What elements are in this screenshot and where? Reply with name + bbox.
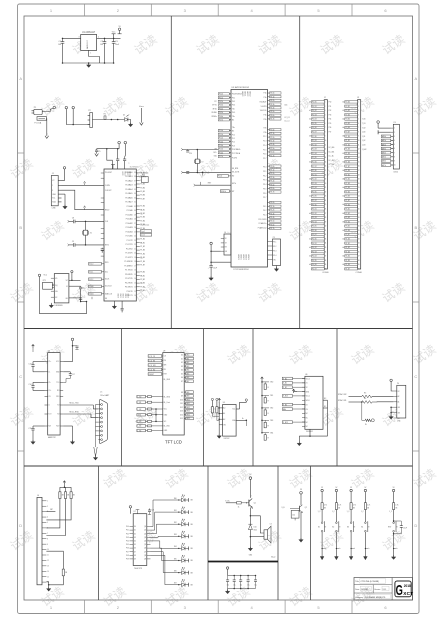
svg-text:P1.0b: P1.0b <box>219 130 223 132</box>
svg-text:P03: P03 <box>126 537 129 539</box>
svg-text:P0_B2: P0_B2 <box>345 110 350 112</box>
svg-text:P0_B6: P0_B6 <box>140 195 145 197</box>
svg-text:b0: b0 <box>309 102 311 104</box>
section divider vertical x=171 <box>170 16 172 329</box>
svg-text:BB: BB <box>191 572 193 574</box>
svg-text:Q3: Q3 <box>144 537 146 539</box>
svg-text:D10: D10 <box>254 527 257 529</box>
svg-text:17: 17 <box>325 170 327 172</box>
svg-text:P0.1: P0.1 <box>232 97 235 99</box>
capacitor C2 <box>104 38 106 41</box>
svg-text:b4: b4 <box>342 204 344 206</box>
svg-text:LCD_CS: LCD_CS <box>149 356 155 358</box>
svg-text:P6.5b: P6.5b <box>270 111 274 113</box>
svg-text:GN: GN <box>398 412 400 414</box>
transistor Q1 <box>248 500 250 507</box>
svg-text:P06: P06 <box>126 548 129 550</box>
power bar flag LED5 <box>188 547 190 551</box>
power flag J1 pin1 <box>63 167 65 169</box>
capacitor C6a <box>117 149 119 159</box>
wire crystal rail B <box>183 171 231 173</box>
svg-text:WT: WT <box>232 191 235 193</box>
resistor R10 <box>70 487 72 492</box>
svg-text:P0_B6: P0_B6 <box>345 127 350 129</box>
svg-text:P6.1b: P6.1b <box>270 96 274 98</box>
svg-text:P2.2: P2.2 <box>263 136 266 138</box>
net label box RD <box>217 175 228 178</box>
svg-text:D2: D2 <box>181 362 183 364</box>
svg-text:G: G <box>396 582 403 599</box>
svg-text:P0_B3: P0_B3 <box>345 114 350 116</box>
resistor R12 <box>237 502 242 504</box>
svg-text:P4_B2: P4_B2 <box>312 247 317 249</box>
svg-text:b8: b8 <box>342 221 344 223</box>
svg-text:P3.6: P3.6 <box>263 193 266 195</box>
ground DB9 <box>94 447 96 457</box>
svg-text:10u: 10u <box>227 585 230 587</box>
svg-text:11: 11 <box>325 144 327 146</box>
IC LCD1 TFT module body <box>163 353 184 435</box>
svg-text:29: 29 <box>358 221 360 223</box>
svg-text:31: 31 <box>358 230 360 232</box>
svg-text:L_B3: L_B3 <box>137 421 141 423</box>
svg-text:P2.4b: P2.4b <box>270 144 274 146</box>
svg-text:9Pin UART: 9Pin UART <box>100 394 110 397</box>
svg-text:P08: P08 <box>126 555 129 557</box>
svg-text:C9: C9 <box>72 241 74 243</box>
svg-text:P00: P00 <box>126 526 129 528</box>
U2 left pin labels inside <box>105 172 113 300</box>
power flag cap bank <box>226 567 228 569</box>
svg-text:P0_B0: P0_B0 <box>312 102 317 104</box>
svg-text:P3_B0: P3_B0 <box>140 272 145 274</box>
svg-text:P2_B4: P2_B4 <box>140 220 145 222</box>
svg-text:T_B0: T_B0 <box>362 119 366 121</box>
svg-text:P4_B1: P4_B1 <box>345 243 350 245</box>
svg-text:14: 14 <box>134 278 136 280</box>
capacitor C14 <box>33 381 45 383</box>
middle band divider x=203.5 <box>203 329 205 467</box>
svg-text:P2_B5: P2_B5 <box>312 191 317 193</box>
wire crystal rail A <box>183 149 219 151</box>
svg-text:10: 10 <box>325 140 327 142</box>
svg-text:P3_B5: P3_B5 <box>345 226 350 228</box>
power bar flag LED6 <box>188 559 190 563</box>
svg-text:P0_B3: P0_B3 <box>140 184 145 186</box>
capacitor C29 box <box>291 510 299 518</box>
svg-text:P0_B3: P0_B3 <box>312 114 317 116</box>
svg-text:P1_B6: P1_B6 <box>345 161 350 163</box>
svg-text:P2.6/A14: P2.6/A14 <box>126 230 133 233</box>
svg-text:34: 34 <box>134 193 136 195</box>
bottom band divider x=98.5 <box>98 466 100 600</box>
svg-text:30: 30 <box>325 226 327 228</box>
wire U7 Q7 to LED8 <box>151 555 182 584</box>
resistor R8 <box>59 487 61 492</box>
ground fuse return <box>45 136 49 139</box>
svg-text:DB9: DB9 <box>186 396 189 398</box>
svg-text:38: 38 <box>358 260 360 262</box>
svg-text:b8: b8 <box>309 264 311 266</box>
svg-text:P2.5: P2.5 <box>263 149 266 151</box>
resistor network RN1 <box>141 177 148 183</box>
svg-text:VCC1: VCC1 <box>123 172 125 176</box>
resistor R1 on rail <box>104 116 106 119</box>
svg-text:P2_B6: P2_B6 <box>312 196 317 198</box>
svg-text:P2_B0: P2_B0 <box>345 170 350 172</box>
svg-text:S1: S1 <box>318 527 320 529</box>
wire fuse to ground <box>46 117 48 119</box>
svg-text:J6: J6 <box>37 495 39 497</box>
svg-text:P4_B3: P4_B3 <box>345 251 350 253</box>
svg-text:37: 37 <box>134 180 136 182</box>
power flag S4 <box>364 489 366 491</box>
power flag VCC U4 right <box>71 338 74 341</box>
svg-text:GND0: GND0 <box>117 294 119 298</box>
connector J1 6-pin header <box>51 176 58 206</box>
wire input rail <box>66 124 90 126</box>
svg-text:VCC2: VCC2 <box>306 378 310 380</box>
power bar flag LED2 <box>188 510 190 514</box>
svg-text:V_BC3: V_BC3 <box>283 396 288 398</box>
svg-text:1k: 1k <box>238 506 240 508</box>
svg-text:S4: S4 <box>361 527 363 529</box>
svg-text:P2_B4: P2_B4 <box>312 187 317 189</box>
svg-text:P1.0/T2: P1.0/T2 <box>127 240 133 242</box>
capacitor C24 bank <box>227 576 229 580</box>
U7 top pins <box>137 510 139 514</box>
svg-text:A: A <box>414 76 417 81</box>
svg-text:D5: D5 <box>181 373 183 375</box>
LED D9 <box>182 583 186 587</box>
resistor pull-up S4 <box>364 503 366 510</box>
svg-text:b4: b4 <box>309 247 311 249</box>
svg-text:P3_B5: P3_B5 <box>312 226 317 228</box>
svg-text:b2: b2 <box>309 153 311 155</box>
svg-text:b2: b2 <box>342 110 344 112</box>
svg-text:TX: TX <box>225 242 227 244</box>
capacitor C9 on reset wire <box>69 244 73 246</box>
svg-text:L_B1: L_B1 <box>137 402 141 404</box>
svg-text:P1.5/MOSI: P1.5/MOSI <box>124 261 133 263</box>
svg-text:28: 28 <box>134 219 136 221</box>
ground U4 left <box>32 440 34 442</box>
IC U8 DS18B20 body <box>54 274 69 303</box>
svg-text:b6: b6 <box>342 170 344 172</box>
switch S3 <box>350 522 352 524</box>
svg-text:P6.7b: P6.7b <box>270 119 274 121</box>
svg-text:KTAC IN2: KTAC IN2 <box>338 393 346 396</box>
svg-text:V_BC3: V_BC3 <box>283 422 288 424</box>
svg-text:104: 104 <box>58 44 61 46</box>
LCD inside pin texts <box>164 355 183 433</box>
resistor pull-up RST <box>393 503 395 510</box>
svg-text:P0.2b: P0.2b <box>219 101 223 103</box>
power flag C6 node <box>65 106 67 108</box>
svg-text:12: 12 <box>325 149 327 151</box>
svg-text:DB2: DB2 <box>186 362 189 364</box>
wire Q1 emitter down <box>251 508 253 510</box>
svg-text:P2.3: P2.3 <box>263 141 266 143</box>
connector P5 aux <box>273 239 281 266</box>
svg-text:b6: b6 <box>309 170 311 172</box>
power flag S1 <box>321 489 323 491</box>
svg-text:2: 2 <box>98 37 99 39</box>
capacitor C26 bank <box>240 575 242 577</box>
svg-text:BB: BB <box>191 524 193 526</box>
svg-text:PL1: PL1 <box>232 138 235 140</box>
wire S1 lower <box>321 532 323 556</box>
svg-text:SCL: SCL <box>105 272 108 274</box>
svg-text:38: 38 <box>134 176 136 178</box>
wire regulator ground rail <box>63 62 114 64</box>
LED D8 <box>182 571 186 575</box>
svg-text:(Cse/Cmse): (Cse/Cmse) <box>141 224 150 226</box>
svg-text:4.7k: 4.7k <box>367 505 370 507</box>
middle band divider x=253 <box>252 329 254 467</box>
svg-text:D3: D3 <box>181 366 183 368</box>
svg-text:J2: J2 <box>324 97 326 99</box>
svg-text:C10: C10 <box>82 288 85 290</box>
svg-text:P4_B6: P4_B6 <box>312 264 317 266</box>
capacitor C12 near U2 corner <box>101 248 103 249</box>
svg-text:RXD2: RXD2 <box>105 209 109 211</box>
capacitor C25 bank <box>233 575 235 577</box>
svg-text:P1.2/ECI: P1.2/ECI <box>126 248 133 250</box>
svg-text:b2: b2 <box>309 196 311 198</box>
svg-text:P0.1b: P0.1b <box>219 97 223 99</box>
ground CN6 <box>390 415 392 417</box>
svg-text:74HC573: 74HC573 <box>134 568 142 570</box>
svg-text:14: 14 <box>358 157 360 159</box>
svg-text:27: 27 <box>134 223 136 225</box>
svg-text:104: 104 <box>100 44 103 46</box>
svg-text:D11: D11 <box>180 403 183 405</box>
svg-text:PL3: PL3 <box>232 145 235 147</box>
wire J6 aux pin <box>46 511 55 513</box>
svg-text:3B: 3B <box>62 495 64 497</box>
svg-text:13: 13 <box>325 153 327 155</box>
U8 left pin stubs <box>51 277 54 279</box>
ground U5 <box>218 425 220 436</box>
svg-text:P2.1b: P2.1b <box>270 133 274 135</box>
power bar flag LED7 <box>188 571 190 575</box>
svg-text:P1_B3: P1_B3 <box>140 250 145 252</box>
svg-text:U6: U6 <box>305 374 307 376</box>
svg-text:LCD_RD: LCD_RD <box>149 369 156 371</box>
svg-text:40: 40 <box>358 268 360 270</box>
ground LED <box>130 123 132 125</box>
ground U4 right bottom <box>63 425 72 427</box>
resistor pull-up S1 <box>321 503 323 510</box>
svg-text:21: 21 <box>325 187 327 189</box>
power bar flag LED1 <box>188 498 190 502</box>
svg-text:VCC3: VCC3 <box>128 172 130 176</box>
svg-text:DS1302: DS1302 <box>306 431 313 433</box>
svg-text:P1.5b: P1.5b <box>219 149 223 151</box>
svg-text:B: B <box>414 225 417 230</box>
svg-text:Version: Version <box>374 589 380 591</box>
svg-text:PL5/Tb: PL5/Tb <box>232 157 237 159</box>
svg-text:EXTb: EXTb <box>232 183 236 185</box>
wire J6 lower tap <box>46 551 63 569</box>
svg-text:P4.1: P4.1 <box>263 206 266 208</box>
power flag up U4 left <box>32 345 34 349</box>
svg-text:C1+: C1+ <box>48 361 51 363</box>
svg-text:SCL1: SCL1 <box>89 272 93 274</box>
svg-text:P2.6: P2.6 <box>263 154 266 156</box>
svg-text:17: 17 <box>358 170 360 172</box>
svg-text:b1: b1 <box>141 243 143 245</box>
capacitor C28 bank <box>255 575 257 577</box>
svg-text:P1_B2: P1_B2 <box>140 246 145 248</box>
svg-text:X1: X1 <box>90 233 92 235</box>
svg-text:P0.3b: P0.3b <box>219 105 223 107</box>
svg-text:P4.6b: P4.6b <box>270 224 274 226</box>
power flag buzzer <box>249 477 252 480</box>
svg-text:MCU_TXD: MCU_TXD <box>70 403 80 405</box>
svg-text:L_B4: L_B4 <box>137 426 141 428</box>
svg-text:P6.3b: P6.3b <box>270 104 274 106</box>
svg-text:P3.1b: P3.1b <box>270 170 274 172</box>
svg-text:CN6: CN6 <box>52 208 56 210</box>
svg-text:P0.5: P0.5 <box>232 112 235 114</box>
svg-text:GND3: GND3 <box>124 294 126 298</box>
wire LED1 to flag <box>185 499 189 501</box>
capacitor C5 with ground <box>96 149 98 150</box>
svg-text:RT1: RT1 <box>43 280 46 282</box>
svg-text:S_B: S_B <box>281 507 284 509</box>
resistor R9 <box>65 487 67 492</box>
middle band divider x=337 <box>336 329 338 467</box>
svg-text:23: 23 <box>358 196 360 198</box>
power bar flag LED4 <box>188 534 190 538</box>
wire RST to switch <box>393 510 395 522</box>
svg-text:3B1: 3B1 <box>174 510 177 512</box>
svg-text:P15: P15 <box>329 123 332 125</box>
svg-text:3P.B0b: 3P.B0b <box>211 116 216 118</box>
U2 top power pin stubs <box>112 165 114 170</box>
svg-text:b0: b0 <box>309 187 311 189</box>
svg-text:VCC2: VCC2 <box>126 172 128 176</box>
wire jack to flag <box>42 109 50 111</box>
svg-text:CC_Ct: CC_Ct <box>284 119 290 122</box>
svg-text:P3_B2: P3_B2 <box>140 279 145 281</box>
svg-text:Q8: Q8 <box>144 555 146 557</box>
svg-text:CLKOUT: CLKOUT <box>105 190 112 192</box>
bottom band divider x=278 <box>277 466 279 600</box>
svg-text:DB13: DB13 <box>186 411 190 413</box>
power flag RST <box>392 489 394 491</box>
port arrow S1 <box>320 557 324 560</box>
svg-text:P6.6b: P6.6b <box>270 115 274 117</box>
svg-text:DB4: DB4 <box>186 370 189 372</box>
svg-text:15: 15 <box>134 274 136 276</box>
svg-text:P1.3b: P1.3b <box>219 141 223 143</box>
svg-text:P1.1b: P1.1b <box>219 134 223 136</box>
svg-text:P1_B2: P1_B2 <box>345 144 350 146</box>
svg-text:DB5: DB5 <box>186 373 189 375</box>
ground C22 <box>210 276 212 278</box>
svg-text:1_B2: 1_B2 <box>362 140 366 142</box>
svg-text:P3.5: P3.5 <box>263 188 266 190</box>
section divider horizontal y=328.5 <box>24 328 413 330</box>
svg-text:3: 3 <box>79 37 80 39</box>
U3 right net label boxes groups <box>268 92 270 94</box>
net flag arrow TXD <box>84 181 86 183</box>
svg-text:P07: P07 <box>126 551 129 553</box>
wire rail jog to U2 pin <box>107 149 113 169</box>
svg-text:P4_B2: P4_B2 <box>345 247 350 249</box>
wire reset line <box>195 184 231 186</box>
svg-text:DB8: DB8 <box>186 392 189 394</box>
port arrow S2 <box>335 557 339 560</box>
svg-text:34: 34 <box>325 243 327 245</box>
svg-text:P0_B2: P0_B2 <box>312 110 317 112</box>
svg-text:P4.7b: P4.7b <box>270 228 274 230</box>
wire clock to U2 <box>75 220 104 222</box>
resistor R5 <box>362 395 372 398</box>
svg-text:18: 18 <box>325 174 327 176</box>
svg-text:C20: C20 <box>189 153 192 155</box>
svg-text:SSELb: SSELb <box>221 191 226 193</box>
svg-text:BB: BB <box>191 584 193 586</box>
svg-text:D15: D15 <box>180 418 183 420</box>
svg-text:10u: 10u <box>233 585 236 587</box>
svg-text:3B: 3B <box>367 507 369 509</box>
svg-text:b2: b2 <box>342 196 344 198</box>
svg-text:T_B2: T_B2 <box>362 127 366 129</box>
junction dots rail <box>111 119 113 121</box>
ground J1 <box>62 193 66 195</box>
resistor R7 sensor <box>361 402 363 420</box>
wire sensor loop <box>40 277 87 314</box>
svg-text:P1_B0: P1_B0 <box>312 136 317 138</box>
svg-text:b0: b0 <box>309 144 311 146</box>
svg-text:16: 16 <box>134 270 136 272</box>
svg-text:34: 34 <box>358 243 360 245</box>
svg-text:LCD_WR: LCD_WR <box>149 365 157 367</box>
svg-text:P0.0b: P0.0b <box>219 94 223 96</box>
svg-text:30: 30 <box>358 226 360 228</box>
svg-text:D0: D0 <box>181 355 183 357</box>
svg-text:T_B1: T_B1 <box>362 123 366 125</box>
svg-text:P4_B5: P4_B5 <box>345 260 350 262</box>
svg-text:BB: BB <box>191 500 193 502</box>
wire diode to ground <box>249 530 251 549</box>
svg-text:25: 25 <box>134 231 136 233</box>
svg-text:P1.6/MISO: P1.6/MISO <box>124 265 133 267</box>
svg-text:3B: 3B <box>395 507 397 509</box>
svg-text:LS: LS <box>270 523 272 525</box>
capacitor C8 on clock wire <box>69 220 73 222</box>
wire LED to ground <box>128 120 131 124</box>
svg-text:CS: CS <box>164 356 166 358</box>
svg-text:P4.2b: P4.2b <box>270 210 274 212</box>
svg-text:P2_B6: P2_B6 <box>345 196 350 198</box>
svg-text:P4_B4: P4_B4 <box>345 256 350 258</box>
svg-text:D: D <box>414 523 417 528</box>
svg-text:1: 1 <box>90 52 91 54</box>
fuse F1 <box>37 117 47 121</box>
wire S2 to switch <box>335 510 337 522</box>
svg-text:D6: D6 <box>181 377 183 379</box>
svg-text:L_B2: L_B2 <box>137 409 141 411</box>
svg-text:J4: J4 <box>224 232 226 234</box>
svg-text:P3_B5: P3_B5 <box>140 290 145 292</box>
port arrow S4 <box>364 557 368 560</box>
svg-text:P0_B5: P0_B5 <box>312 123 317 125</box>
